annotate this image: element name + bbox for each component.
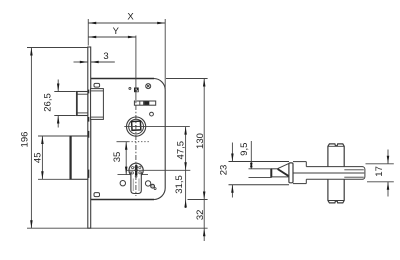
side view case top line (23 datum) — [229, 161, 290, 163]
latch tail inner top line — [344, 169, 364, 171]
svg-text:X: X — [127, 12, 134, 23]
follower hub outer circle — [127, 117, 146, 136]
follower hub inner circle — [129, 119, 144, 134]
small hole below slider — [150, 112, 154, 116]
latch collar flange — [289, 163, 293, 183]
svg-text:3: 3 — [103, 51, 108, 62]
latch bolt head — [77, 92, 88, 116]
faceplate cutout mark bottom of deadbolt — [88, 170, 90, 178]
faceplate (forend) — [88, 47, 91, 228]
dimension X line — [88, 22, 165, 24]
svg-text:23: 23 — [218, 165, 229, 176]
forend screw slot top — [94, 83, 100, 87]
dimension 35 line — [125, 142, 127, 175]
17 bottom extension line — [367, 181, 394, 183]
side view case bottom line (23 datum) — [229, 184, 290, 186]
svg-text:17: 17 — [374, 166, 385, 177]
dimension 32 line — [203, 200, 205, 242]
side view latch shaft lower line — [249, 176, 272, 178]
faceplate cutout mark top of deadbolt — [88, 131, 90, 138]
130 top extension line — [166, 78, 208, 80]
dimension 23 line — [231, 143, 233, 162]
latch adjuster dark square — [134, 88, 139, 93]
side view latch shaft upper line — [249, 168, 272, 170]
shaft step vertical bottom — [305, 179, 307, 183]
26.5 bottom extension line — [54, 115, 76, 117]
svg-text:130: 130 — [195, 133, 206, 149]
dimension 9.5 line — [250, 141, 252, 169]
shaft middle axis line — [293, 172, 364, 174]
svg-text:45: 45 — [32, 153, 43, 164]
svg-text:31,5: 31,5 — [174, 175, 185, 194]
svg-text:Y: Y — [113, 26, 120, 37]
196 top extension line — [27, 47, 88, 49]
svg-text:9,5: 9,5 — [239, 143, 250, 156]
dimension 3 (faceplate thickness) — [74, 61, 88, 63]
fixing hole left of cylinder — [120, 181, 125, 186]
svg-text:35: 35 — [112, 152, 123, 163]
35 dim lower reference line — [118, 174, 149, 176]
lock case body outline — [91, 78, 166, 199]
dimension Y line — [88, 36, 136, 38]
shaft wide section bottom line collar to step — [293, 183, 306, 185]
17 top extension line — [366, 163, 394, 165]
extension line at case back edge for X — [164, 19, 166, 89]
svg-text:47,5: 47,5 — [175, 141, 186, 160]
key silhouette in cylinder — [135, 165, 137, 176]
faceplate cutout mark top of latch — [88, 90, 90, 94]
shaft narrow section bottom line to tail end — [306, 178, 362, 180]
dimension 26.5 line — [57, 80, 59, 92]
dimension 196 line — [30, 48, 32, 229]
extension line at faceplate front (X/Y datum) — [87, 19, 89, 46]
shaft step vertical top — [305, 162, 307, 167]
snib slider slot — [134, 101, 155, 105]
45 bottom extension line — [38, 178, 70, 180]
spindle hub bar lower part — [328, 179, 344, 203]
latch tail rounded end — [362, 167, 365, 180]
deadbolt — [70, 136, 88, 179]
35 dim upper reference line — [117, 141, 129, 143]
vertical centerline through follower and cylinder — [135, 36, 137, 96]
dimension 45 line — [41, 136, 43, 179]
small hole pair lower right — [151, 184, 155, 188]
faceplate cutout mark bottom of latch — [88, 117, 90, 122]
shaft narrow section top line to tail end — [306, 166, 362, 168]
shaft wide section top line collar to step — [293, 161, 306, 163]
euro profile stem — [131, 172, 141, 194]
cylinder hole circle — [129, 163, 143, 177]
spindle hub bar upper part — [328, 144, 344, 167]
130 bottom extension line — [188, 199, 208, 201]
latch bolt head side view — [270, 169, 272, 177]
dimension 31.5 line — [185, 170, 187, 208]
case screw hole top right — [146, 84, 151, 89]
26.5 top extension line — [54, 91, 76, 93]
svg-text:32: 32 — [195, 210, 206, 221]
fixing hole right of cylinder — [145, 181, 150, 186]
dimension 47.5 line — [185, 127, 187, 171]
latch tail inner bottom line — [344, 176, 364, 178]
follower square spindle hole — [132, 121, 141, 130]
cylinder horizontal centerline — [127, 169, 190, 171]
latch housing box inside case — [91, 89, 104, 120]
forend screw slot bottom — [94, 193, 100, 197]
tiny screw left of adjuster — [129, 87, 131, 89]
45 top extension line — [38, 135, 70, 137]
svg-text:196: 196 — [20, 132, 31, 148]
follower horizontal centerline — [124, 126, 190, 128]
svg-text:26,5: 26,5 — [42, 93, 53, 112]
dimension 130 line — [203, 79, 205, 200]
bottom extension line (196 and 32) — [27, 227, 208, 229]
dimension 17 line — [387, 150, 389, 164]
